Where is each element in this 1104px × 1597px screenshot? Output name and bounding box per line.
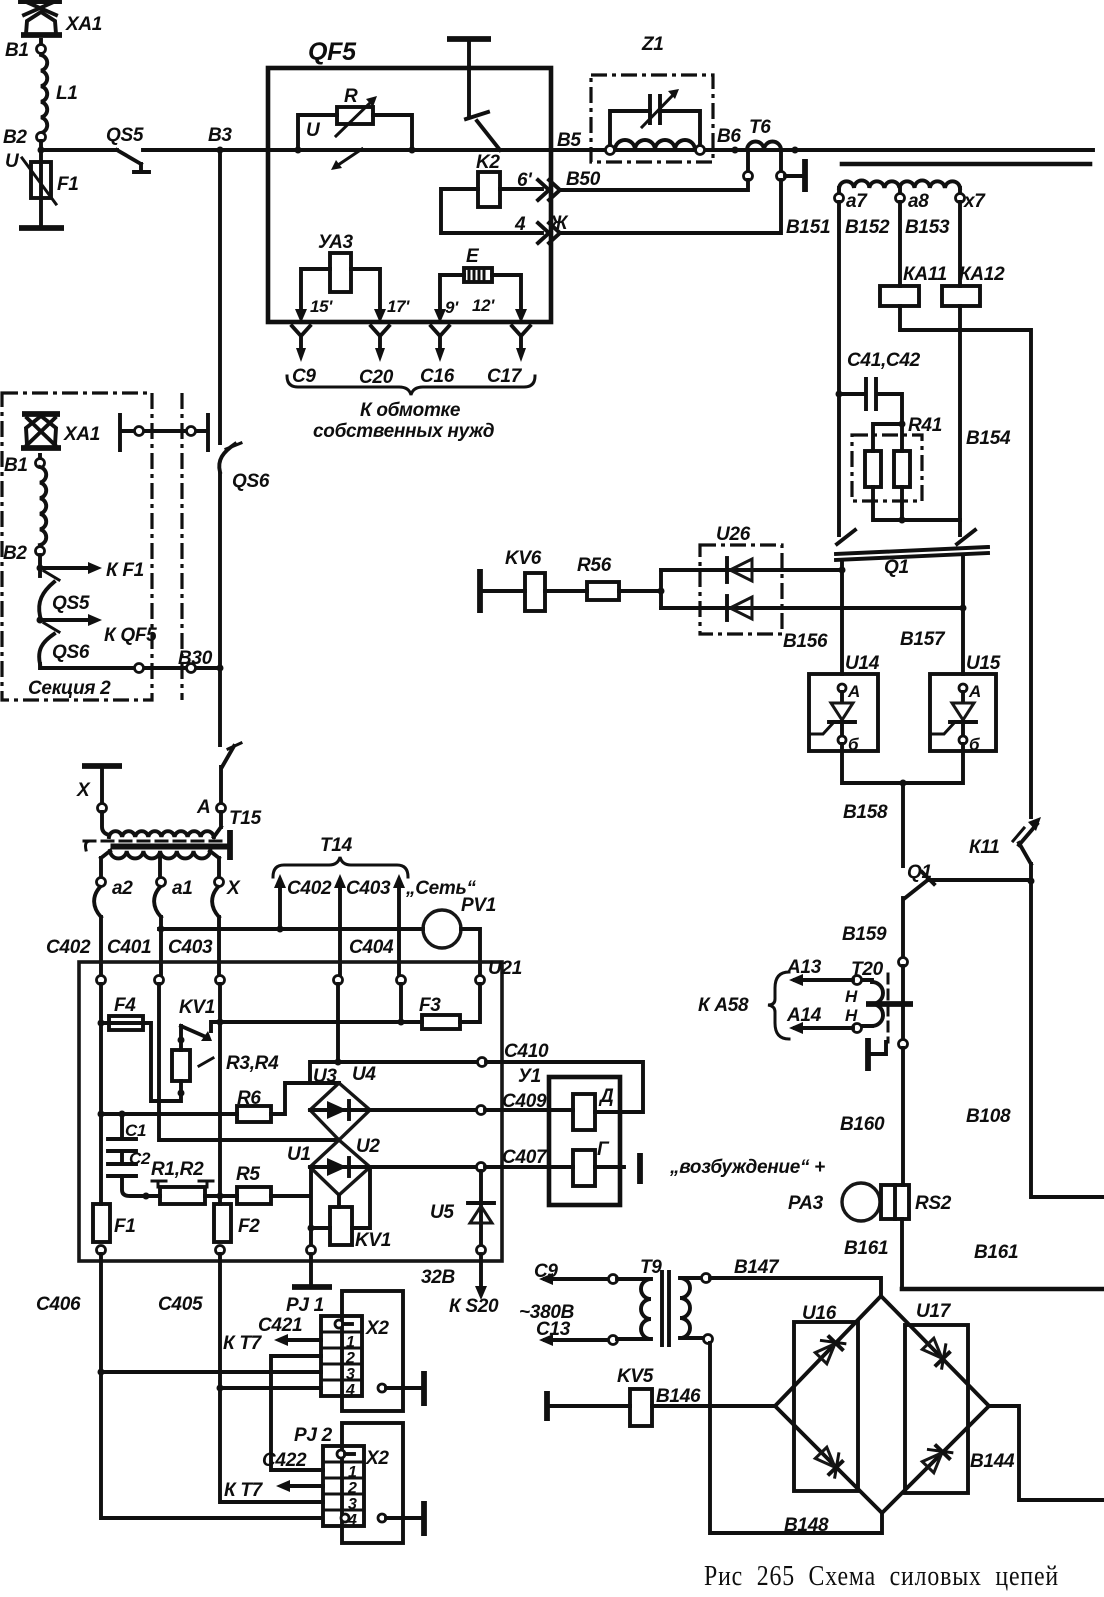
svg-text:T14: T14 <box>320 835 353 856</box>
svg-text:А13: А13 <box>786 957 822 978</box>
svg-text:В1: В1 <box>5 40 29 61</box>
svg-text:С403: С403 <box>346 878 391 899</box>
svg-text:б: б <box>969 735 980 754</box>
svg-text:KV6: KV6 <box>505 548 542 569</box>
svg-text:T9: T9 <box>640 1257 662 1278</box>
svg-text:В146: В146 <box>656 1386 701 1407</box>
svg-text:В108: В108 <box>966 1106 1011 1127</box>
svg-text:С16: С16 <box>420 366 455 387</box>
svg-text:С1: С1 <box>125 1121 146 1140</box>
svg-text:F1: F1 <box>57 174 79 195</box>
svg-text:XA1: XA1 <box>63 424 100 445</box>
svg-text:U26: U26 <box>716 524 751 545</box>
svg-text:KV1: KV1 <box>355 1230 391 1251</box>
svg-text:3: 3 <box>348 1496 357 1513</box>
svg-text:32В: 32В <box>421 1267 456 1288</box>
svg-text:В158: В158 <box>843 802 888 823</box>
svg-text:T6: T6 <box>749 117 771 138</box>
svg-text:В151: В151 <box>786 217 830 238</box>
svg-text:К S20: К S20 <box>449 1296 499 1317</box>
svg-text:U5: U5 <box>430 1202 454 1223</box>
svg-text:X: X <box>76 780 91 801</box>
svg-text:R41: R41 <box>908 415 942 436</box>
svg-text:R56: R56 <box>577 555 612 576</box>
svg-text:В6: В6 <box>717 126 741 147</box>
svg-text:R6: R6 <box>237 1088 261 1109</box>
svg-text:РЈ 2: РЈ 2 <box>294 1425 333 1446</box>
svg-text:a2: a2 <box>112 878 133 899</box>
svg-text:1: 1 <box>346 1334 355 1351</box>
svg-text:К11: К11 <box>969 837 1000 858</box>
svg-text:К обмотке: К обмотке <box>360 400 461 421</box>
svg-text:„Сеть“: „Сеть“ <box>405 878 476 899</box>
svg-text:4: 4 <box>345 1382 355 1399</box>
svg-text:В152: В152 <box>845 217 890 238</box>
svg-text:С422: С422 <box>262 1450 307 1471</box>
svg-text:С406: С406 <box>36 1294 81 1315</box>
svg-text:QS5: QS5 <box>106 125 144 146</box>
svg-text:РЈ 1: РЈ 1 <box>286 1295 324 1316</box>
svg-text:В154: В154 <box>966 428 1011 449</box>
svg-text:U16: U16 <box>802 1303 837 1324</box>
svg-text:QS6: QS6 <box>52 642 90 663</box>
svg-text:собственных нужд: собственных нужд <box>313 421 495 442</box>
svg-text:К QF5: К QF5 <box>104 625 157 646</box>
svg-text:„возбуждение“ +: „возбуждение“ + <box>669 1157 825 1178</box>
svg-text:QF5: QF5 <box>308 38 357 66</box>
svg-text:А: А <box>847 682 860 701</box>
svg-text:Д: Д <box>598 1086 614 1107</box>
svg-text:Н: Н <box>845 1006 858 1025</box>
svg-text:U3: U3 <box>313 1066 337 1087</box>
svg-text:F2: F2 <box>238 1216 260 1237</box>
svg-text:1: 1 <box>348 1464 357 1481</box>
svg-text:УА3: УА3 <box>318 232 354 253</box>
svg-text:К F1: К F1 <box>106 560 144 581</box>
svg-text:В153: В153 <box>905 217 950 238</box>
svg-text:К Т7: К Т7 <box>223 1333 263 1354</box>
svg-text:В147: В147 <box>734 1257 780 1278</box>
svg-text:Г: Г <box>597 1139 610 1160</box>
svg-text:В50: В50 <box>566 169 601 190</box>
svg-text:С404: С404 <box>349 937 394 958</box>
svg-text:В156: В156 <box>783 631 828 652</box>
svg-text:a1: a1 <box>172 878 193 899</box>
svg-text:Рис 265 Схема силовых цепе: Рис 265 Схема силовых цепей <box>704 1561 1059 1592</box>
svg-text:F3: F3 <box>419 995 441 1016</box>
svg-text:KV1: KV1 <box>179 997 215 1018</box>
svg-text:У1: У1 <box>518 1066 541 1087</box>
svg-text:QS6: QS6 <box>232 471 270 492</box>
svg-text:XA1: XA1 <box>65 14 102 35</box>
svg-text:б: б <box>848 735 859 754</box>
svg-text:С402: С402 <box>287 878 332 899</box>
svg-text:RS2: RS2 <box>915 1193 952 1214</box>
svg-text:А: А <box>968 682 981 701</box>
svg-text:R3,R4: R3,R4 <box>226 1053 279 1074</box>
svg-text:a7: a7 <box>846 191 868 212</box>
svg-text:3: 3 <box>346 1366 355 1383</box>
svg-text:F4: F4 <box>114 995 136 1016</box>
svg-text:T15: T15 <box>229 808 262 829</box>
svg-text:C410: C410 <box>504 1041 549 1062</box>
svg-text:В5: В5 <box>557 130 581 151</box>
svg-text:В30: В30 <box>178 648 213 669</box>
svg-text:В157: В157 <box>900 629 946 650</box>
svg-text:С402: С402 <box>46 937 91 958</box>
svg-text:КА11: КА11 <box>903 264 947 285</box>
svg-text:R: R <box>344 86 358 107</box>
svg-text:Q1: Q1 <box>884 557 909 578</box>
svg-text:С17: С17 <box>487 366 523 387</box>
svg-text:2: 2 <box>345 1350 355 1367</box>
svg-text:Н: Н <box>845 987 858 1006</box>
svg-text:12': 12' <box>472 296 495 315</box>
svg-text:2: 2 <box>347 1480 357 1497</box>
svg-text:K2: K2 <box>476 152 500 173</box>
svg-text:U14: U14 <box>845 653 880 674</box>
svg-text:Секция 2: Секция 2 <box>28 678 111 699</box>
svg-text:В159: В159 <box>842 924 887 945</box>
svg-text:U2: U2 <box>356 1136 380 1157</box>
svg-text:С2: С2 <box>129 1149 151 1168</box>
svg-text:17': 17' <box>387 297 410 316</box>
svg-text:С405: С405 <box>158 1294 203 1315</box>
svg-text:R5: R5 <box>236 1164 260 1185</box>
svg-text:С20: С20 <box>359 367 394 388</box>
svg-text:a8: a8 <box>908 191 929 212</box>
svg-text:В2: В2 <box>3 543 27 564</box>
svg-text:L1: L1 <box>56 83 78 104</box>
svg-text:Ж: Ж <box>549 213 569 234</box>
svg-text:В2: В2 <box>3 127 27 148</box>
svg-text:В1: В1 <box>4 455 28 476</box>
svg-text:КА12: КА12 <box>959 264 1005 285</box>
svg-text:К Т7: К Т7 <box>224 1480 264 1501</box>
svg-text:В161: В161 <box>974 1242 1018 1263</box>
svg-text:С401: С401 <box>107 937 151 958</box>
svg-text:x7: x7 <box>963 191 986 212</box>
svg-text:U1: U1 <box>287 1144 311 1165</box>
svg-text:U4: U4 <box>352 1064 376 1085</box>
svg-text:РА3: РА3 <box>788 1193 824 1214</box>
svg-text:KV5: KV5 <box>617 1366 654 1387</box>
svg-text:С13: С13 <box>536 1319 571 1340</box>
svg-text:С421: С421 <box>258 1315 302 1336</box>
svg-text:X: X <box>226 878 241 899</box>
svg-text:15': 15' <box>310 297 333 316</box>
svg-text:U21: U21 <box>488 958 522 979</box>
svg-text:С9: С9 <box>292 366 316 387</box>
svg-text:U15: U15 <box>966 653 1001 674</box>
svg-text:R1,R2: R1,R2 <box>151 1159 204 1180</box>
svg-text:Z1: Z1 <box>641 34 664 55</box>
svg-text:С41,С42: С41,С42 <box>847 350 921 371</box>
svg-text:В3: В3 <box>208 125 232 146</box>
svg-text:В161: В161 <box>844 1238 888 1259</box>
svg-text:X2: X2 <box>365 1448 389 1469</box>
svg-text:U17: U17 <box>916 1301 952 1322</box>
svg-text:К А58: К А58 <box>698 995 749 1016</box>
svg-text:В160: В160 <box>840 1114 885 1135</box>
svg-text:А: А <box>196 797 210 818</box>
svg-text:С403: С403 <box>168 937 213 958</box>
svg-text:QS5: QS5 <box>52 593 90 614</box>
svg-text:А14: А14 <box>786 1005 822 1026</box>
svg-text:X2: X2 <box>365 1318 389 1339</box>
svg-text:В144: В144 <box>970 1451 1015 1472</box>
svg-text:C407: C407 <box>502 1147 548 1168</box>
svg-text:9': 9' <box>445 298 459 317</box>
svg-text:U: U <box>5 151 20 172</box>
svg-text:U: U <box>306 120 321 141</box>
svg-text:F1: F1 <box>114 1216 136 1237</box>
svg-text:E: E <box>466 246 480 267</box>
